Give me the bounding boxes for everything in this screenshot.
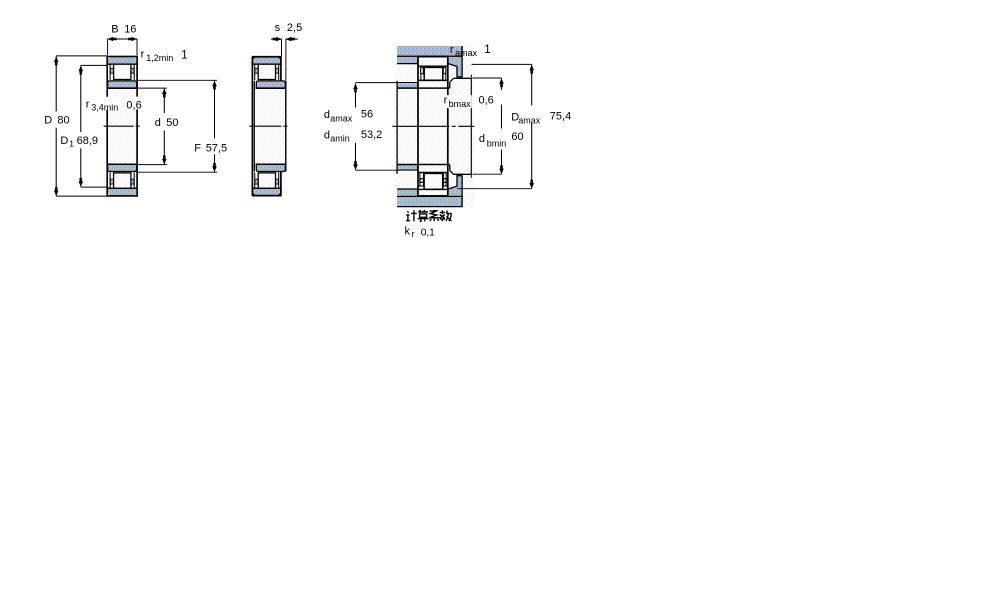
- dim B extension right: [136, 39, 138, 56]
- left view cage right edge: [133, 64, 135, 80]
- dim s extension outer ring face: [281, 39, 283, 57]
- svg-text:amax: amax: [330, 114, 353, 124]
- left view outer ring raceway line: [107, 63, 136, 65]
- dim d extension bottom: [138, 164, 167, 166]
- dim B extension left: [107, 39, 109, 56]
- right view housing shoulder face line: [397, 63, 418, 65]
- right view mirror shaft seat line: [397, 164, 450, 166]
- dim d_b line seg1: [501, 78, 503, 90]
- svg-text:d: d: [155, 117, 161, 129]
- right view housing right edge: [461, 46, 463, 77]
- svg-text:60: 60: [511, 131, 523, 143]
- dim d arrow bottom: [162, 156, 167, 165]
- dim D1 arrow bottom: [79, 178, 84, 187]
- dim s line right: [286, 38, 298, 40]
- right bearing cage left edge top: [420, 74, 422, 81]
- left view mirror inner ring section: [108, 164, 137, 171]
- dim D_a arrow bottom: [529, 180, 534, 189]
- dim D extension top: [56, 55, 107, 57]
- dim d_b line seg3: [501, 150, 503, 175]
- label bg 0,6 (r_b): [477, 95, 497, 106]
- middle view cage right edge: [278, 64, 280, 80]
- right bearing flange edge right bottom: [445, 173, 447, 186]
- middle view cage right edge mirror: [278, 172, 280, 188]
- right bearing flange edge left bottom: [419, 173, 421, 186]
- svg-text:0,1: 0,1: [421, 228, 435, 239]
- svg-text:amax: amax: [518, 116, 541, 126]
- dim d_b extension top: [472, 77, 501, 79]
- dim B arrow right: [128, 37, 137, 42]
- left view mirror cage left edge: [109, 172, 111, 188]
- dim d_a arrow top: [353, 84, 358, 93]
- svg-text:bmax: bmax: [449, 99, 472, 109]
- right view mirror housing section band: [397, 196, 462, 206]
- right view mirror shaft abutment top line: [397, 169, 418, 171]
- svg-text:r: r: [86, 98, 90, 110]
- left view bearing outline: [107, 57, 137, 196]
- dim D_a extension bottom: [457, 188, 532, 190]
- middle view bottom outline: [252, 195, 281, 197]
- svg-text:1,2min: 1,2min: [146, 53, 173, 63]
- dim D1 line upper: [80, 66, 82, 133]
- right bearing roller bottom: [424, 173, 443, 189]
- svg-text:r: r: [412, 229, 415, 239]
- dim D_a line lower: [531, 123, 533, 189]
- dim F arrow bottom: [212, 163, 217, 172]
- svg-text:k: k: [405, 225, 411, 237]
- middle view inner ring section: [256, 81, 285, 88]
- dim D arrow bottom: [54, 187, 59, 196]
- svg-text:50: 50: [166, 117, 178, 129]
- svg-text:amax: amax: [455, 48, 478, 58]
- dim D extension bottom: [56, 195, 107, 197]
- svg-text:53,2: 53,2: [361, 129, 382, 141]
- right view mirror collar end line: [456, 175, 462, 177]
- dim D line lower: [55, 128, 57, 196]
- left view mirror outer ring raceway line: [107, 187, 136, 189]
- middle view cage bar right: [275, 68, 278, 73]
- left view cage bar section right: [131, 68, 134, 73]
- right view mirror housing right edge: [461, 175, 463, 206]
- middle view outer raceway line: [252, 63, 281, 65]
- dim D arrow top: [54, 57, 59, 66]
- middle view outer ring left face: [251, 57, 253, 196]
- right bearing cage bar right top: [443, 68, 446, 74]
- left view outer ring section (top band): [108, 57, 136, 64]
- right bearing inner raceway line top: [418, 79, 448, 81]
- svg-text:d: d: [324, 109, 330, 121]
- right bearing flange tip line right bottom: [443, 185, 448, 187]
- svg-text:1: 1: [69, 139, 74, 149]
- right bearing outer raceway line top: [419, 65, 448, 67]
- middle view section hatch field: [253, 57, 286, 196]
- dim D1 line lower: [80, 148, 82, 187]
- svg-text:d: d: [479, 133, 485, 145]
- middle view inner ring left face: [253, 81, 255, 172]
- dim d_a extension bottom: [356, 169, 398, 171]
- left view inner ring bore line: [107, 87, 137, 89]
- middle view axis centre line: [249, 125, 288, 127]
- middle view inner ring bore line mirror: [256, 163, 286, 165]
- svg-text:75,4: 75,4: [550, 111, 571, 123]
- svg-text:68,9: 68,9: [77, 135, 98, 147]
- right view mirror shaft shoulder face: [449, 165, 451, 171]
- right view axis centre line: [392, 125, 474, 127]
- label bg 0,6: [125, 97, 143, 110]
- left view mirror roller: [114, 173, 131, 188]
- dim D_a extension top: [472, 63, 532, 65]
- dim s line left: [271, 38, 282, 40]
- svg-text:3,4min: 3,4min: [91, 103, 118, 113]
- right bearing flange tip line left bottom: [418, 185, 424, 187]
- right view housing abutment collar right: [448, 57, 461, 77]
- dim B line: [108, 38, 137, 40]
- dim D_a arrow top: [529, 65, 534, 74]
- middle view outer ring right face lower: [280, 171, 282, 196]
- svg-text:r: r: [444, 94, 448, 106]
- middle view cage left edge: [254, 64, 256, 80]
- svg-text:F: F: [194, 142, 201, 154]
- right view shaft seat line: [397, 87, 450, 89]
- left view mirror cage bar section right: [131, 179, 134, 184]
- right view mirror housing shoulder face line: [397, 188, 418, 190]
- svg-text:D: D: [44, 114, 52, 126]
- middle view roller: [258, 64, 275, 79]
- dim s arrow right: [286, 37, 295, 42]
- left view mirror cage right edge: [133, 172, 135, 188]
- right bearing cage bar left top: [421, 68, 424, 74]
- middle view cage bar left: [255, 68, 258, 73]
- svg-text:bmin: bmin: [487, 138, 507, 148]
- right view mirror housing shoulder left: [397, 189, 417, 195]
- svg-text:1: 1: [181, 49, 187, 61]
- middle view inner ring section mirror: [256, 164, 285, 171]
- dim d_b arrow bottom: [499, 165, 504, 174]
- dim d arrow top: [162, 89, 167, 98]
- right view housing section band: [397, 46, 462, 56]
- right view mirror housing bore line: [397, 195, 462, 197]
- right view shaft shoulder face: [449, 82, 451, 88]
- right bearing cage edge right bottom: [442, 173, 444, 186]
- middle view outer ring section (bottom band): [252, 188, 280, 195]
- svg-text:amin: amin: [330, 133, 350, 143]
- right view shaft fillet r_b: [450, 78, 454, 82]
- left view mirror outer ring section (top band): [108, 188, 136, 195]
- dim d line lower: [163, 131, 165, 165]
- shaft left crop edge: [396, 81, 398, 174]
- middle view outer ring section (top band): [252, 57, 280, 64]
- label bg r_bmax: [443, 95, 472, 108]
- dim s extension inner ring face: [285, 39, 287, 81]
- svg-text:0,6: 0,6: [479, 95, 494, 107]
- right view shaft shoulder top line: [453, 77, 471, 79]
- right view shaft abutment section left: [397, 83, 418, 87]
- dim d_b witness stub bottom: [470, 174, 472, 178]
- dim D1 extension top: [81, 64, 107, 66]
- svg-text:2,5: 2,5: [287, 22, 302, 34]
- bottom housing band lower line: [397, 206, 463, 208]
- left view mirror cage bar section left: [110, 179, 113, 184]
- right view housing shoulder left: [397, 57, 417, 63]
- dim d_b extension bottom: [472, 173, 501, 175]
- svg-text:1: 1: [484, 44, 490, 56]
- right view shaft abutment top line: [397, 82, 418, 84]
- svg-text:16: 16: [124, 23, 136, 35]
- left view roller: [114, 64, 131, 79]
- right view mirror housing abutment collar right: [448, 176, 461, 196]
- dim F arrow top: [212, 81, 217, 90]
- right bearing cage bar right bottom: [443, 179, 446, 183]
- label bg r3,4min: [83, 97, 121, 110]
- right view collar end line: [456, 76, 462, 78]
- right view mirror shaft fillet r_b: [450, 171, 454, 175]
- right view mirror collar chamfer r_a: [448, 186, 457, 189]
- right bearing cage edge left bottom: [423, 173, 425, 186]
- middle view roller mirror: [258, 173, 275, 188]
- middle view cage left edge mirror: [254, 172, 256, 188]
- right view collar inner face: [456, 66, 458, 76]
- right view mirror collar inner face: [456, 176, 458, 186]
- right bearing outer raceway line bottom: [418, 188, 448, 190]
- dim F line upper: [214, 81, 216, 139]
- svg-text:d: d: [324, 129, 330, 141]
- svg-text:r: r: [141, 48, 145, 60]
- right view mirror shaft abutment section left: [397, 165, 418, 169]
- right bearing cage bar left bottom: [420, 179, 424, 183]
- right bearing roller top: [424, 67, 443, 80]
- middle view outer raceway line mirror: [252, 187, 281, 189]
- dim s arrow left: [273, 37, 282, 42]
- dim d_b line seg2: [501, 105, 503, 129]
- right bearing inner raceway line bottom: [418, 172, 448, 174]
- dim F extension top: [138, 79, 217, 81]
- dim d_a extension top: [356, 82, 398, 84]
- dim d line upper: [163, 88, 165, 113]
- middle view inner ring right face: [285, 81, 287, 172]
- dim D_a line upper: [531, 65, 533, 106]
- left view axis centre line: [104, 125, 141, 127]
- svg-text:D: D: [60, 135, 68, 147]
- middle view cage bar left mirror: [255, 179, 258, 184]
- middle view outer ring right face upper: [280, 57, 282, 82]
- dim B arrow left: [108, 37, 117, 42]
- svg-text:80: 80: [57, 114, 69, 126]
- left view section hatch field: [108, 57, 138, 196]
- right bearing cage right edge top: [445, 74, 447, 81]
- dim D line upper: [55, 56, 57, 111]
- dim D1 arrow top: [79, 66, 84, 75]
- right view collar chamfer r_a: [448, 64, 457, 67]
- left view inner ring section: [108, 81, 137, 88]
- svg-text:57,5: 57,5: [206, 142, 227, 154]
- right view housing bore line: [397, 55, 462, 57]
- right view hatch field: [395, 45, 475, 208]
- svg-text:B: B: [111, 23, 118, 35]
- dim D1 extension bottom: [81, 186, 107, 188]
- middle view inner ring bore line: [256, 87, 286, 89]
- dim d_a line upper: [355, 83, 357, 107]
- svg-text:0,6: 0,6: [126, 99, 141, 111]
- shaft shoulder right crop edge: [470, 78, 472, 174]
- dim d_a line lower: [355, 143, 357, 170]
- dim F extension bottom: [138, 171, 217, 173]
- middle view top outline: [252, 56, 281, 58]
- left view cage left edge: [109, 64, 111, 80]
- left view mirror inner ring bore line: [107, 163, 137, 165]
- dim F line lower: [214, 154, 216, 172]
- right view mirror shaft shoulder top line: [453, 173, 471, 175]
- dim d extension top: [138, 87, 167, 89]
- svg-text:s: s: [275, 22, 281, 34]
- left view cage bar section left: [110, 68, 113, 73]
- right view bearing outline: [418, 57, 448, 196]
- svg-text:56: 56: [361, 109, 373, 121]
- dim d_a arrow bottom: [353, 161, 358, 170]
- caption 计算系数 (calculation factors): [406, 210, 451, 221]
- dim d_b witness stub top: [470, 75, 472, 79]
- svg-text:r: r: [450, 44, 454, 56]
- dim d_b arrow top: [499, 78, 504, 87]
- middle view cage bar right mirror: [275, 179, 278, 184]
